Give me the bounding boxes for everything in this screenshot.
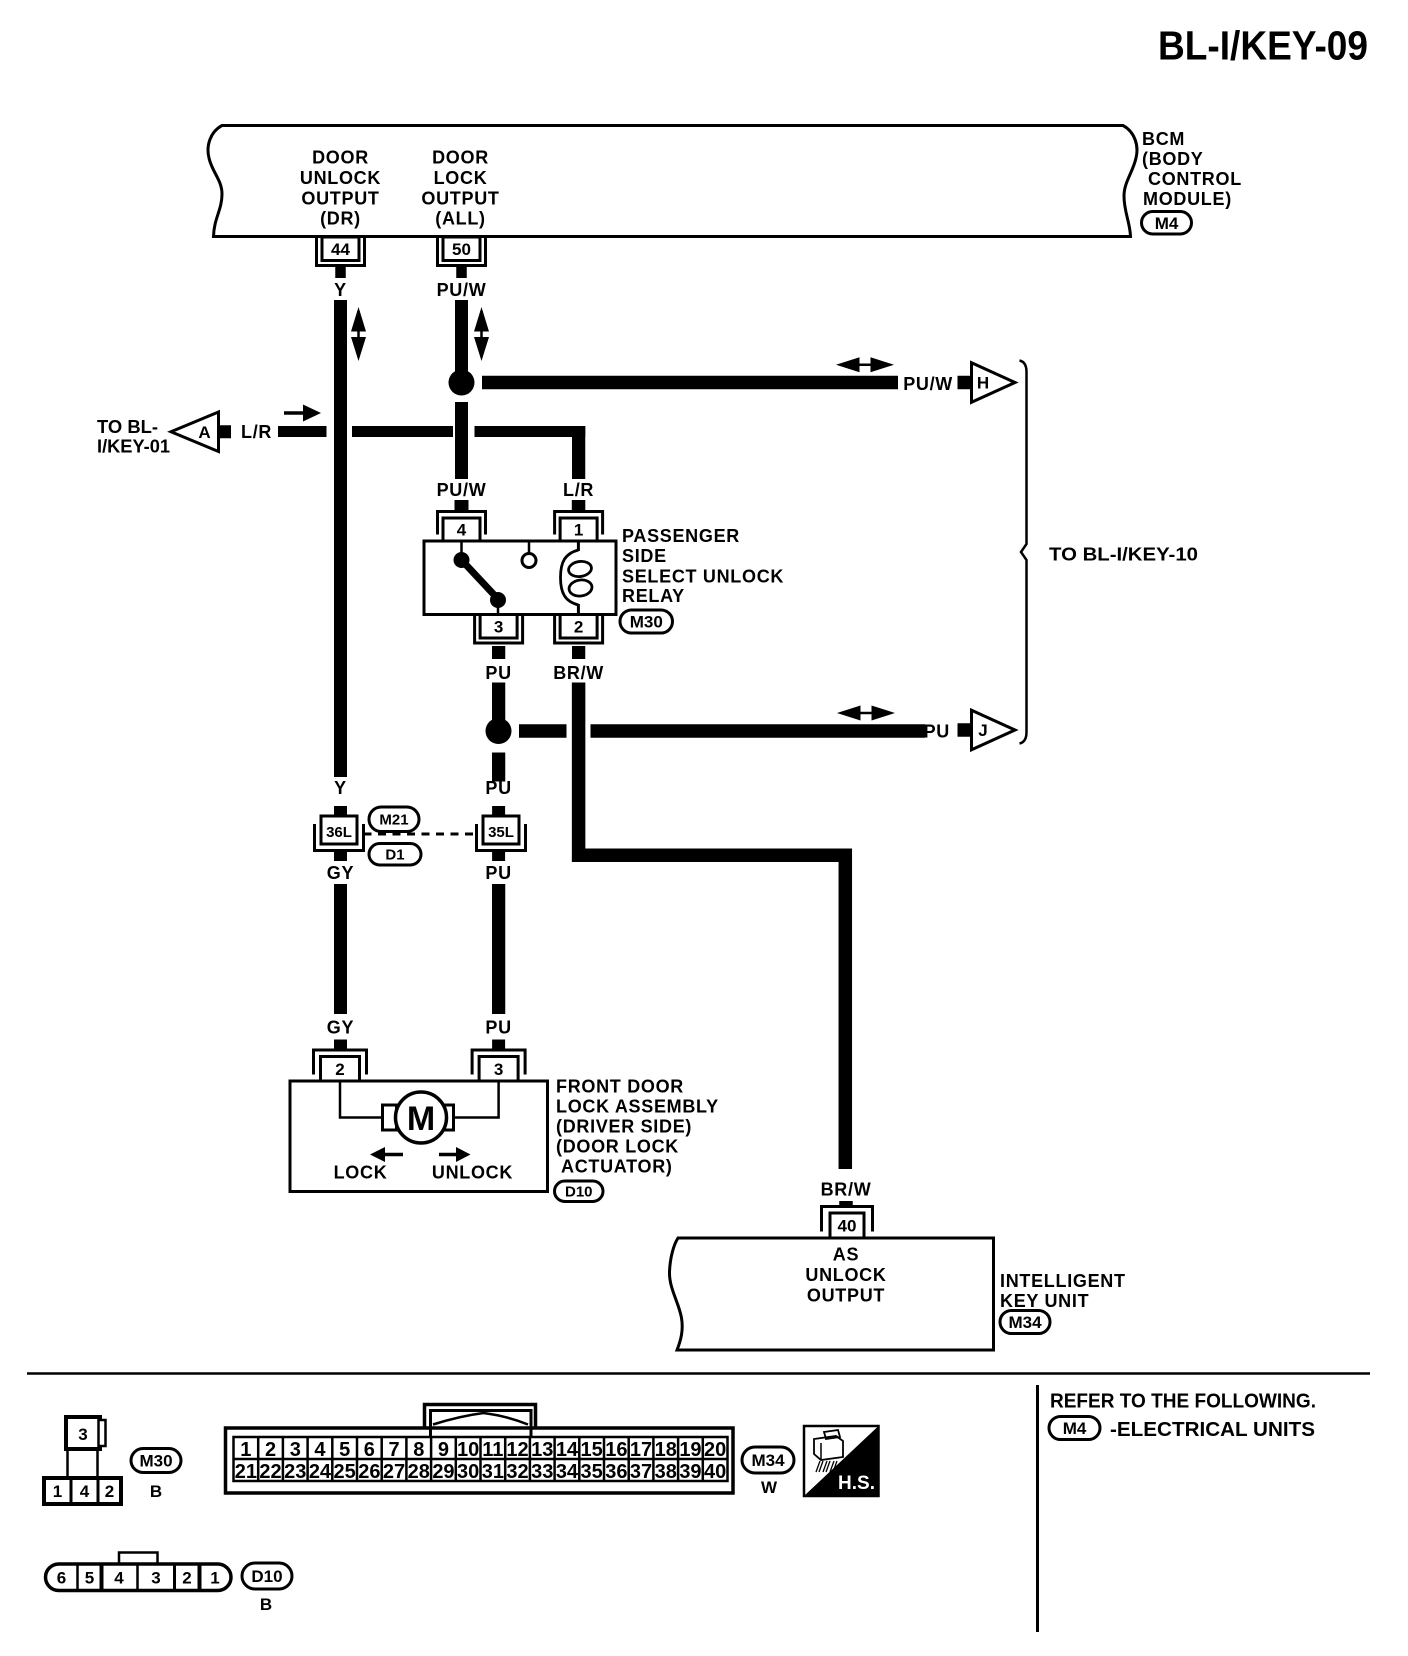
svg-text:PU: PU: [485, 863, 511, 883]
svg-text:(DRIVER SIDE): (DRIVER SIDE): [556, 1117, 692, 1137]
svg-text:(BODY: (BODY: [1142, 149, 1204, 169]
svg-text:M34: M34: [1008, 1313, 1042, 1332]
svg-text:KEY UNIT: KEY UNIT: [1000, 1291, 1089, 1311]
svg-text:7: 7: [388, 1439, 399, 1461]
svg-text:GY: GY: [327, 1018, 354, 1038]
svg-text:LOCK ASSEMBLY: LOCK ASSEMBLY: [556, 1097, 719, 1117]
svg-text:REFER TO THE FOLLOWING.: REFER TO THE FOLLOWING.: [1050, 1390, 1316, 1413]
svg-text:3: 3: [494, 617, 503, 636]
svg-text:1: 1: [210, 1569, 219, 1588]
svg-text:35: 35: [581, 1461, 603, 1483]
svg-text:L/R: L/R: [241, 422, 272, 442]
svg-text:M30: M30: [630, 613, 663, 632]
svg-text:11: 11: [482, 1439, 503, 1461]
svg-text:H.S.: H.S.: [838, 1473, 875, 1494]
svg-text:15: 15: [581, 1439, 603, 1461]
svg-text:UNLOCK: UNLOCK: [432, 1163, 513, 1183]
svg-text:LOCK: LOCK: [434, 168, 488, 188]
svg-text:TO BL-I/KEY-10: TO BL-I/KEY-10: [1049, 545, 1198, 565]
svg-text:-ELECTRICAL UNITS: -ELECTRICAL UNITS: [1110, 1418, 1315, 1441]
svg-text:6: 6: [364, 1439, 375, 1461]
svg-text:4: 4: [80, 1482, 90, 1501]
svg-text:24: 24: [309, 1461, 332, 1483]
svg-text:26: 26: [358, 1461, 380, 1483]
svg-text:10: 10: [457, 1439, 479, 1461]
svg-text:SIDE: SIDE: [622, 546, 667, 566]
svg-text:31: 31: [482, 1461, 504, 1483]
svg-text:BCM: BCM: [1142, 129, 1185, 149]
svg-text:28: 28: [408, 1461, 430, 1483]
svg-text:1: 1: [240, 1439, 251, 1461]
svg-text:4: 4: [457, 521, 467, 540]
svg-text:M21: M21: [379, 812, 408, 829]
svg-text:1: 1: [574, 521, 583, 540]
svg-text:5: 5: [339, 1439, 350, 1461]
svg-text:27: 27: [383, 1461, 405, 1483]
svg-text:1: 1: [53, 1482, 62, 1501]
svg-text:H: H: [977, 374, 989, 393]
svg-text:40: 40: [704, 1461, 726, 1483]
svg-text:OUTPUT: OUTPUT: [807, 1286, 885, 1306]
svg-text:L/R: L/R: [563, 480, 594, 500]
svg-text:12: 12: [506, 1439, 528, 1461]
svg-text:25: 25: [334, 1461, 356, 1483]
svg-text:J: J: [978, 721, 987, 740]
svg-text:4: 4: [114, 1569, 124, 1588]
svg-text:SELECT UNLOCK: SELECT UNLOCK: [622, 567, 784, 587]
svg-text:(DR): (DR): [320, 209, 361, 229]
svg-text:OUTPUT: OUTPUT: [421, 188, 499, 208]
svg-text:9: 9: [438, 1439, 449, 1461]
svg-text:BR/W: BR/W: [553, 663, 604, 683]
svg-text:W: W: [761, 1478, 778, 1497]
svg-text:36: 36: [605, 1461, 627, 1483]
svg-text:M4: M4: [1063, 1419, 1087, 1438]
svg-text:B: B: [260, 1595, 272, 1614]
svg-text:6: 6: [57, 1569, 66, 1588]
svg-text:PU/W: PU/W: [437, 480, 487, 500]
svg-text:M: M: [407, 1100, 435, 1138]
svg-text:29: 29: [432, 1461, 454, 1483]
svg-text:2: 2: [265, 1439, 276, 1461]
svg-text:50: 50: [452, 240, 471, 259]
svg-text:22: 22: [259, 1461, 281, 1483]
svg-text:A: A: [198, 423, 210, 442]
svg-text:M34: M34: [751, 1451, 785, 1470]
svg-text:OUTPUT: OUTPUT: [301, 188, 379, 208]
svg-text:40: 40: [838, 1217, 857, 1236]
svg-text:36L: 36L: [326, 824, 352, 841]
svg-text:19: 19: [679, 1439, 701, 1461]
svg-text:D10: D10: [251, 1567, 282, 1586]
svg-text:M4: M4: [1155, 214, 1179, 233]
svg-text:37: 37: [630, 1461, 652, 1483]
svg-text:LOCK: LOCK: [334, 1163, 388, 1183]
svg-text:3: 3: [494, 1060, 503, 1079]
svg-text:Y: Y: [334, 778, 347, 798]
svg-text:39: 39: [679, 1461, 701, 1483]
svg-text:2: 2: [182, 1569, 191, 1588]
svg-text:UNLOCK: UNLOCK: [300, 168, 381, 188]
svg-text:M30: M30: [139, 1452, 172, 1471]
svg-text:FRONT DOOR: FRONT DOOR: [556, 1077, 684, 1097]
svg-text:8: 8: [413, 1439, 424, 1461]
svg-text:32: 32: [506, 1461, 528, 1483]
svg-text:PU/W: PU/W: [437, 280, 487, 300]
svg-text:34: 34: [556, 1461, 579, 1483]
svg-text:18: 18: [655, 1439, 677, 1461]
svg-text:TO BL-: TO BL-: [97, 417, 158, 437]
svg-text:PU: PU: [485, 778, 511, 798]
svg-text:4: 4: [314, 1439, 326, 1461]
svg-text:GY: GY: [327, 863, 354, 883]
svg-text:17: 17: [630, 1439, 652, 1461]
svg-text:PU: PU: [924, 722, 950, 742]
svg-text:2: 2: [574, 617, 583, 636]
svg-text:INTELLIGENT: INTELLIGENT: [1000, 1271, 1126, 1291]
svg-text:14: 14: [556, 1439, 579, 1461]
svg-text:21: 21: [235, 1461, 257, 1483]
svg-text:CONTROL: CONTROL: [1148, 169, 1242, 189]
svg-text:2: 2: [105, 1482, 114, 1501]
svg-text:ACTUATOR): ACTUATOR): [561, 1157, 673, 1177]
svg-text:16: 16: [605, 1439, 627, 1461]
svg-text:5: 5: [85, 1569, 94, 1588]
svg-text:DOOR: DOOR: [432, 148, 489, 168]
svg-text:AS: AS: [833, 1245, 859, 1265]
svg-text:DOOR: DOOR: [312, 148, 369, 168]
svg-text:3: 3: [290, 1439, 301, 1461]
svg-text:RELAY: RELAY: [622, 586, 685, 606]
svg-text:PASSENGER: PASSENGER: [622, 526, 740, 546]
svg-text:Y: Y: [334, 280, 347, 300]
svg-text:B: B: [150, 1482, 162, 1501]
svg-text:20: 20: [704, 1439, 726, 1461]
svg-text:PU/W: PU/W: [903, 374, 953, 394]
svg-text:I/KEY-01: I/KEY-01: [97, 437, 170, 457]
svg-text:2: 2: [335, 1060, 344, 1079]
svg-text:UNLOCK: UNLOCK: [805, 1265, 886, 1285]
svg-text:35L: 35L: [488, 824, 514, 841]
svg-text:3: 3: [78, 1425, 87, 1444]
svg-text:3: 3: [151, 1569, 160, 1588]
svg-text:PU: PU: [485, 1018, 511, 1038]
svg-text:BR/W: BR/W: [821, 1180, 872, 1200]
svg-text:23: 23: [284, 1461, 306, 1483]
svg-text:(ALL): (ALL): [435, 209, 485, 229]
svg-text:MODULE): MODULE): [1143, 189, 1232, 209]
svg-text:44: 44: [331, 240, 350, 259]
svg-text:BL-I/KEY-09: BL-I/KEY-09: [1158, 23, 1368, 69]
svg-text:33: 33: [531, 1461, 553, 1483]
svg-text:(DOOR LOCK: (DOOR LOCK: [556, 1137, 679, 1157]
svg-text:13: 13: [531, 1439, 553, 1461]
svg-text:30: 30: [457, 1461, 479, 1483]
svg-text:D1: D1: [385, 847, 404, 864]
svg-text:PU: PU: [485, 663, 511, 683]
svg-text:D10: D10: [565, 1184, 593, 1201]
svg-text:38: 38: [655, 1461, 677, 1483]
